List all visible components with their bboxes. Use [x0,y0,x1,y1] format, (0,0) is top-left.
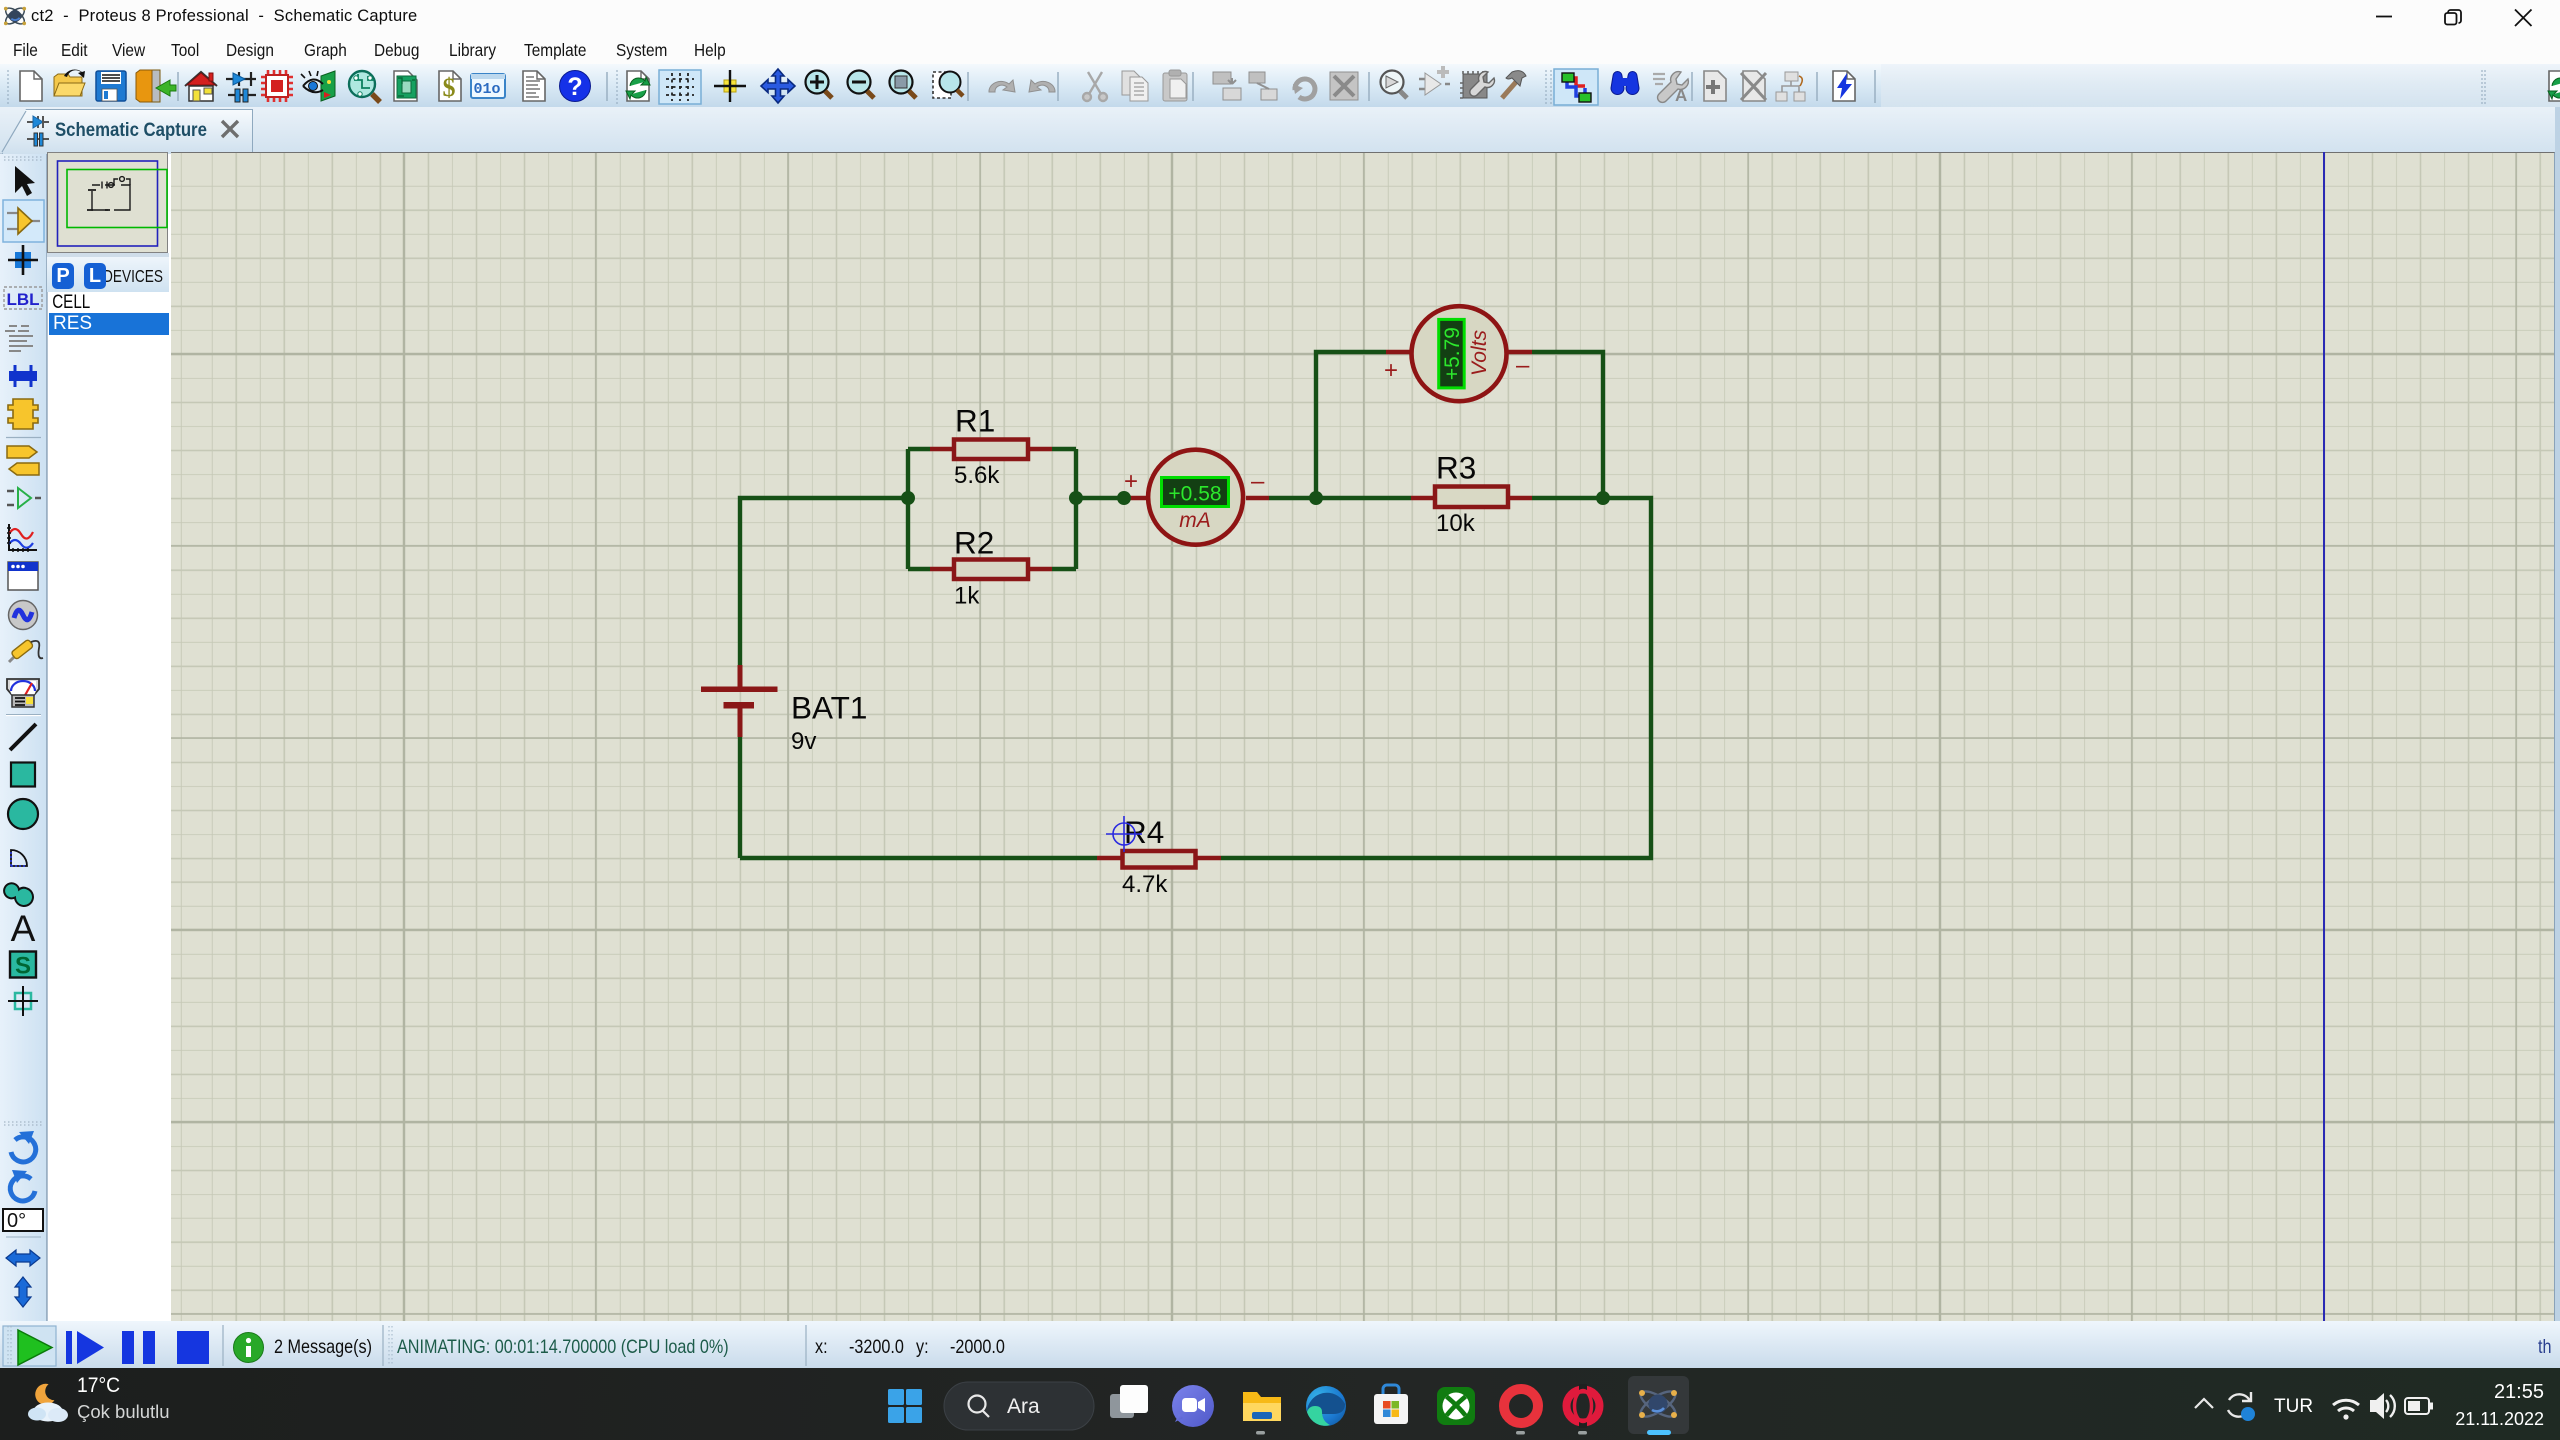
svg-text:Volts: Volts [1468,330,1491,376]
svg-text:Çok bulutlu: Çok bulutlu [77,1401,170,1422]
svg-text:BAT1: BAT1 [791,690,867,726]
svg-text:?: ? [567,73,582,101]
svg-text:21:55: 21:55 [2494,1381,2544,1403]
svg-text:LBL: LBL [6,290,39,309]
svg-text:Ara: Ara [1007,1395,1040,1418]
svg-text:–: – [1516,352,1530,379]
svg-text:21.11.2022: 21.11.2022 [2455,1409,2544,1429]
svg-text:+0.58: +0.58 [1168,483,1221,506]
svg-text:0°: 0° [7,1210,26,1232]
svg-text:R3: R3 [1436,450,1476,486]
svg-text:$: $ [443,73,456,102]
svg-text:–: – [1251,468,1265,495]
svg-text:9v: 9v [791,728,816,755]
svg-text:mA: mA [1179,509,1211,532]
svg-text:S: S [15,953,31,980]
svg-text:+: + [1384,357,1398,384]
svg-text:4.7k: 4.7k [1122,871,1168,898]
svg-text:5.6k: 5.6k [954,462,1000,489]
svg-text:R4: R4 [1124,814,1164,850]
svg-text:TUR: TUR [2274,1396,2313,1417]
svg-text:R1: R1 [955,403,995,439]
svg-text:R2: R2 [954,525,994,561]
svg-text:17°C: 17°C [77,1374,120,1397]
svg-text:01o: 01o [473,81,500,98]
svg-text:+5.79: +5.79 [1441,327,1464,380]
svg-text:A: A [11,908,36,949]
svg-text:1k: 1k [954,583,980,610]
svg-text:A: A [1675,86,1687,105]
svg-text:+: + [1124,468,1138,495]
svg-text:10k: 10k [1436,510,1476,537]
